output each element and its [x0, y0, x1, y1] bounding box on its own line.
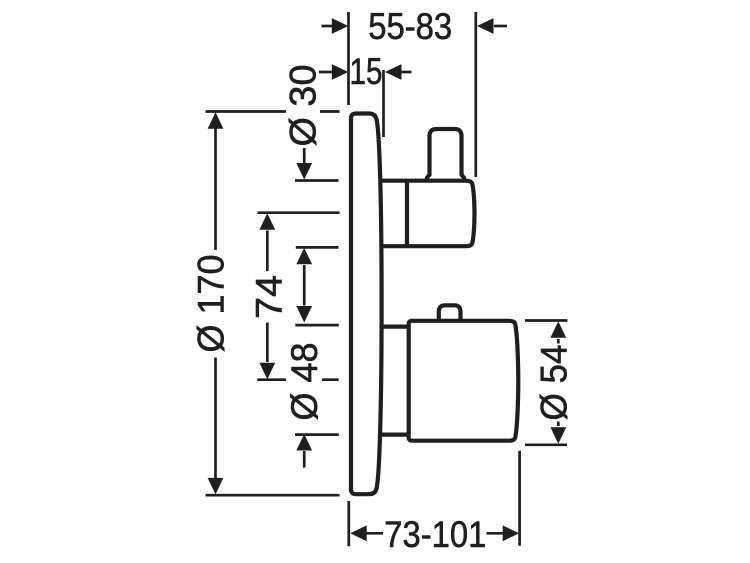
arrow O30 top (points down) — [296, 163, 312, 180]
extension line top centerline (74) — [258, 211, 340, 214]
arrow 15 left (points right) — [332, 64, 349, 80]
arrow O48 bottom (points up) — [296, 434, 312, 451]
arrow 73-101 left (points left) — [350, 525, 367, 541]
thermostat handle body — [409, 321, 519, 441]
label O30 (rotated) — [283, 65, 324, 147]
extension line bottom of dim O54 — [525, 443, 567, 446]
top valve handle body — [407, 181, 475, 247]
label 15 — [350, 51, 383, 92]
extension line right of dim 55-83 — [474, 12, 477, 177]
extension line bottom centerline (74), broken by text — [257, 378, 338, 381]
extension line left (wall plane, above plate) — [347, 12, 350, 105]
arrow 55-83 left (points right) — [332, 18, 349, 34]
label O54 (rotated) — [534, 345, 575, 421]
label 73-101 — [384, 514, 486, 555]
label O48 (rotated) — [284, 343, 325, 421]
top valve sleeve (O30) — [381, 179, 408, 183]
label O170 (rotated) — [191, 255, 232, 353]
arrow 73-101 right (points right) — [503, 525, 520, 541]
svg-text:74: 74 — [249, 275, 290, 319]
svg-text:Ø 54: Ø 54 — [534, 345, 575, 421]
extension line bottom of dim O30 — [296, 246, 339, 249]
extension line right of dim 15 — [382, 70, 385, 137]
thermostat safety pin/button — [439, 305, 461, 319]
dim O48 bottom leader line — [303, 451, 306, 468]
svg-text:15: 15 — [350, 51, 383, 92]
extension line top of dim O54 — [525, 319, 567, 322]
label 55-83 — [368, 6, 452, 47]
extension line top of dim O30 — [295, 179, 339, 182]
arrow O48 top (points down) — [296, 306, 312, 323]
arrow 74 top (points up) — [259, 213, 275, 230]
arrow O54 top (points up) — [550, 321, 566, 338]
arrow O54 bottom (points down) — [550, 427, 566, 444]
dim 73-101 leader lines — [366, 532, 503, 535]
extension line right of dim 73-101 — [518, 451, 521, 546]
extension line bottom of dim O48 — [295, 433, 339, 436]
arrow 55-83 right (points left) — [477, 18, 494, 34]
dimension 15 leader lines — [319, 71, 412, 74]
arrow O30 bottom (points up) — [296, 248, 312, 264]
arrow O170 bottom (points down) — [208, 478, 224, 495]
dimension 55-83 leader lines — [322, 25, 508, 28]
svg-text:Ø 170: Ø 170 — [191, 255, 232, 353]
label 74 (rotated) — [249, 275, 290, 319]
svg-text:Ø 48: Ø 48 — [284, 343, 325, 421]
arrow 15 right (points left) — [385, 64, 402, 80]
dim O54 leader lines — [557, 339, 560, 426]
svg-text:55-83: 55-83 — [368, 6, 452, 47]
escutcheon plate (side profile) — [351, 114, 382, 495]
extension line top of dim O48 — [295, 324, 339, 327]
dim O30 leader lines — [303, 148, 306, 306]
dim O170 leader lines — [214, 128, 217, 479]
svg-text:Ø 30: Ø 30 — [283, 65, 324, 147]
thermostat sleeve (O48) — [381, 325, 409, 329]
extension line bottom of dim O170 — [206, 494, 340, 497]
extension line top of dim O170, broken by O30 text — [206, 110, 340, 113]
extension line left of dim 73-101 — [347, 501, 350, 546]
arrow O170 top (points up) — [208, 112, 224, 129]
top handle knob/lever — [427, 129, 464, 181]
dim 74 leader lines — [266, 231, 269, 363]
arrow 74 bottom (points down) — [259, 363, 275, 380]
svg-text:73-101: 73-101 — [384, 514, 486, 555]
